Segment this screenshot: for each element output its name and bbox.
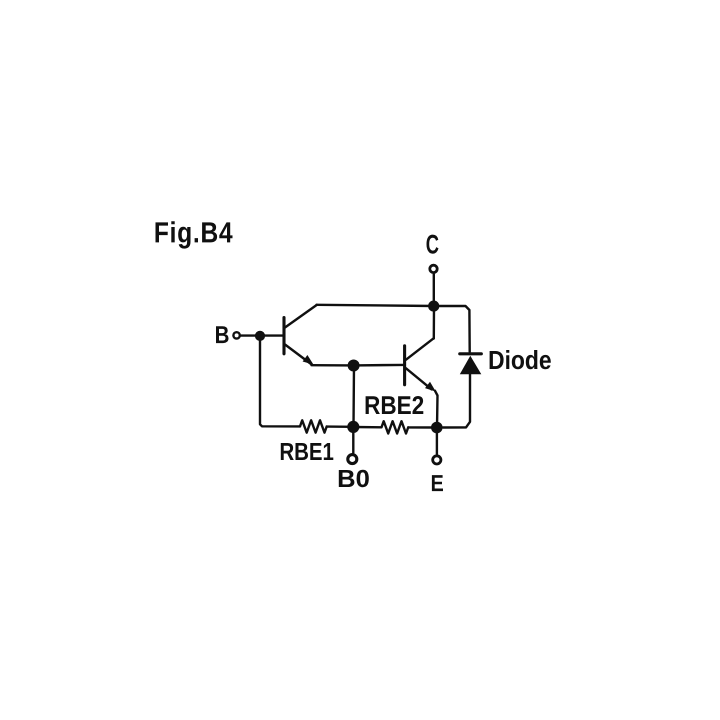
wire RBE2 to node E (408, 426, 437, 429)
transistor Q1 (284, 305, 317, 365)
title Fig.B4 (156, 221, 233, 248)
wire RBE1 to node B0 (327, 425, 354, 428)
wire diode anode to node E (443, 374, 470, 427)
node collector junction (428, 301, 439, 312)
wire B0 stub (352, 427, 354, 453)
terminal E (433, 456, 441, 464)
label RBE1 (281, 443, 334, 460)
diode D1 (460, 354, 482, 374)
node B0 junction (347, 421, 359, 433)
wire C terminal to collector node (433, 274, 435, 306)
terminal C (430, 265, 437, 272)
node E junction (431, 422, 443, 434)
wire Q1 emitter to node N1 (312, 364, 354, 367)
terminal B (233, 332, 239, 338)
resistor RBE2 (353, 421, 408, 433)
wire node N1 to Q2 base (354, 364, 403, 367)
node B junction (255, 331, 265, 341)
terminal B label (216, 326, 229, 343)
terminal B0 (348, 455, 357, 464)
wire top rail Q1 collector to node (317, 305, 434, 306)
wire Q2 emitter to node E (435, 391, 438, 428)
wire node N1 down to node B0 (352, 366, 355, 427)
terminal B0 label (339, 470, 369, 488)
wire Q2 collector to node (433, 306, 436, 338)
label Diode (490, 350, 551, 369)
node N1 (348, 360, 360, 372)
label RBE2 (366, 396, 424, 414)
transistor Q2 (405, 338, 436, 391)
wire left branch down to bottom rail (260, 336, 300, 426)
wire B terminal to Q1 base (240, 334, 283, 336)
terminal C label (427, 235, 439, 254)
terminal E label (432, 475, 443, 491)
wire E stub (436, 428, 438, 455)
resistor RBE1 (300, 420, 327, 432)
wire collector node to diode cathode (434, 306, 470, 352)
